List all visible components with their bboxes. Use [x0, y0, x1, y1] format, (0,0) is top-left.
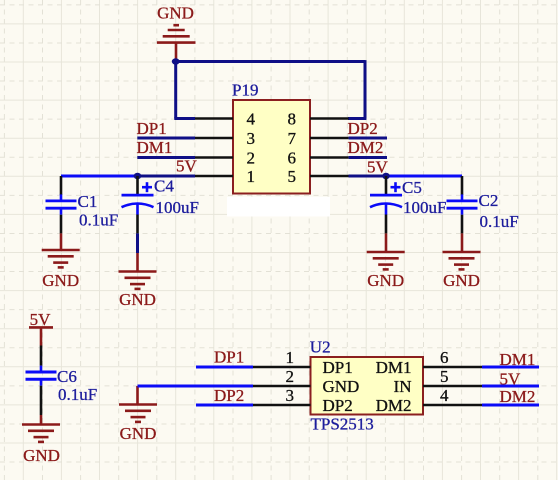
comment TPS2513 — [311, 415, 374, 434]
svg-text:GND: GND — [42, 271, 79, 290]
wire C4 to ground — [136, 233, 139, 253]
pin number 5 — [288, 167, 297, 186]
wire net DM1 (left of P19) — [137, 156, 195, 159]
value 0.1uF (C1) — [79, 211, 118, 230]
wire GND net: left vertical down to pin 4 — [174, 62, 177, 119]
ground under C4 — [119, 253, 157, 309]
pin number 4 — [440, 386, 449, 405]
svg-text:GND: GND — [367, 271, 404, 290]
net label 5V (right) — [367, 158, 389, 177]
net label DP2 (bottom) — [214, 386, 244, 405]
svg-text:3: 3 — [247, 129, 256, 148]
svg-text:GND: GND — [120, 424, 157, 443]
svg-text:1: 1 — [286, 348, 295, 367]
pin 5 of U2 (right stub) — [423, 385, 482, 388]
ground under C1 — [42, 233, 80, 289]
svg-text:6: 6 — [288, 148, 297, 167]
junction at C5 — [382, 173, 390, 179]
pin name DM2 — [376, 396, 412, 415]
designator C4 — [154, 177, 174, 196]
pin number 7 — [288, 129, 297, 148]
wire net DP1 (left of P19) — [137, 137, 195, 140]
ground under C6 — [22, 415, 60, 465]
power port GND (top, inverted) — [157, 4, 196, 62]
pin number 3 — [286, 386, 295, 405]
svg-text:TPS2513: TPS2513 — [311, 415, 374, 434]
svg-text:IN: IN — [394, 377, 412, 396]
pin 2 of U2 (left stub) — [253, 385, 311, 388]
svg-text:GND: GND — [119, 290, 156, 309]
designator C1 — [78, 192, 98, 211]
net label 5V (bottom right) — [500, 369, 522, 388]
svg-text:DP2: DP2 — [323, 396, 353, 415]
value 0.1uF (C2) — [480, 212, 519, 231]
svg-text:DM1: DM1 — [376, 358, 412, 377]
pin 3 of U2 (left stub) — [253, 404, 311, 407]
pin 6 of U2 (right stub) — [423, 366, 482, 369]
svg-text:U2: U2 — [310, 338, 331, 357]
pin 4 of P19 (left stub) — [195, 117, 233, 120]
wire net 5V to pin 5 — [349, 175, 387, 178]
svg-text:P19: P19 — [232, 80, 258, 99]
pin number 1 — [247, 167, 256, 186]
ground under C2 — [443, 233, 481, 289]
wire net DP2 (right of P19) — [349, 137, 387, 140]
junction (GND net) — [172, 58, 180, 64]
pin 1 of U2 (left stub) — [253, 366, 311, 369]
pin name DP1 — [323, 358, 353, 377]
net label DM2 — [348, 138, 384, 157]
wire GND net: junction to right corner — [176, 60, 365, 63]
svg-text:3: 3 — [286, 386, 295, 405]
pin number 1 — [286, 348, 295, 367]
capacitor C6 — [26, 346, 57, 416]
svg-text:DP2: DP2 — [214, 386, 244, 405]
svg-text:DP1: DP1 — [214, 347, 244, 366]
svg-text:7: 7 — [288, 129, 297, 148]
net label 5V (left) — [176, 157, 198, 176]
svg-text:DP1: DP1 — [323, 358, 353, 377]
pin number 4 — [247, 109, 256, 128]
capacitor C1 — [46, 176, 77, 233]
svg-text:GND: GND — [157, 4, 194, 23]
pin 3 of P19 (left stub) — [195, 137, 233, 140]
capacitor C4 (polarized) — [122, 176, 154, 233]
pin number 5 — [440, 367, 449, 386]
designator C2 — [479, 191, 499, 210]
pin name DM1 — [376, 358, 412, 377]
svg-text:100uF: 100uF — [156, 198, 199, 217]
svg-text:100uF: 100uF — [403, 198, 446, 217]
ground (middle, to U2 pin 2) — [119, 386, 157, 443]
wire net DP1 to U2 pin 1 — [196, 366, 253, 369]
svg-text:DP2: DP2 — [348, 119, 378, 138]
svg-text:4: 4 — [440, 386, 449, 405]
svg-text:5V: 5V — [500, 369, 522, 388]
pin 8 of P19 (right stub) — [310, 117, 349, 120]
designator C6 — [57, 367, 77, 386]
ground under C5 — [367, 233, 405, 289]
svg-text:C5: C5 — [402, 178, 422, 197]
net label DP1 (bottom) — [214, 347, 244, 366]
svg-text:C1: C1 — [78, 192, 98, 211]
net label DP2 — [348, 119, 378, 138]
connector P19 box — [233, 100, 310, 194]
svg-text:5: 5 — [440, 367, 449, 386]
svg-text:2: 2 — [247, 148, 256, 167]
svg-text:0.1uF: 0.1uF — [58, 385, 97, 404]
svg-text:DM2: DM2 — [348, 138, 384, 157]
svg-text:C2: C2 — [479, 191, 499, 210]
net label DM1 (bottom right) — [500, 350, 536, 369]
wire 5V rail junction to C2 — [386, 175, 462, 178]
svg-text:GND: GND — [23, 446, 60, 465]
svg-text:1: 1 — [247, 167, 256, 186]
svg-text:0.1uF: 0.1uF — [480, 212, 519, 231]
capacitor C5 (polarized) — [370, 176, 402, 233]
designator C5 — [402, 178, 422, 197]
svg-text:GND: GND — [443, 271, 480, 290]
svg-text:DP1: DP1 — [137, 119, 167, 138]
svg-text:C4: C4 — [154, 177, 174, 196]
svg-text:DM2: DM2 — [376, 396, 412, 415]
pin number 6 — [288, 148, 297, 167]
wire to pin 4 — [174, 117, 195, 120]
pin number 2 — [247, 148, 256, 167]
wire net DM2 from U2 pin 4 — [482, 404, 539, 407]
pin name DP2 — [323, 396, 353, 415]
wire net 5V to pin 1 — [138, 175, 196, 178]
wire 5V rail C1 to junction — [61, 175, 138, 178]
designator P19 — [232, 80, 258, 99]
wire GND to U2 pin 2 — [138, 385, 254, 388]
svg-text:6: 6 — [440, 348, 449, 367]
wire to pin 8 — [348, 117, 366, 120]
wire net DM1 from U2 pin 6 — [482, 366, 539, 369]
white overlay rectangle below P19 — [227, 197, 330, 217]
pin 4 of U2 (right stub) — [423, 404, 482, 407]
value 100uF (C4) — [156, 198, 199, 217]
pin 7 of P19 (right stub) — [310, 137, 349, 140]
svg-text:GND: GND — [323, 377, 360, 396]
pin number 3 — [247, 129, 256, 148]
junction at C4 — [134, 173, 142, 179]
wire net DM2 (right of P19) — [349, 156, 387, 159]
svg-text:5: 5 — [288, 167, 297, 186]
pin name GND — [323, 377, 360, 396]
svg-text:8: 8 — [288, 109, 297, 128]
designator U2 — [310, 338, 331, 357]
value 100uF (C5) — [403, 198, 446, 217]
net label DM1 — [137, 138, 173, 157]
svg-text:4: 4 — [247, 109, 256, 128]
value 0.1uF (C6) — [58, 385, 97, 404]
pin 5 of P19 (right stub) — [310, 175, 349, 178]
pin number 6 — [440, 348, 449, 367]
pin 1 of P19 (left stub) — [195, 175, 233, 178]
IC U2 box — [311, 357, 424, 415]
wire net DP2 to U2 pin 3 — [196, 404, 253, 407]
wire net 5V from U2 pin 5 — [482, 385, 539, 388]
capacitor C2 — [447, 176, 478, 233]
svg-text:2: 2 — [286, 367, 295, 386]
svg-text:0.1uF: 0.1uF — [79, 211, 118, 230]
svg-text:DM1: DM1 — [137, 138, 173, 157]
svg-text:5V: 5V — [176, 157, 198, 176]
svg-text:DM1: DM1 — [500, 350, 536, 369]
svg-text:C6: C6 — [57, 367, 77, 386]
svg-text:DM2: DM2 — [500, 387, 536, 406]
power port 5V (above C6) — [29, 310, 53, 345]
wire GND net: right vertical down to pin 8 — [364, 60, 367, 118]
pin 6 of P19 (right stub) — [310, 156, 349, 159]
net label DM2 (bottom right) — [500, 387, 536, 406]
pin number 8 — [288, 109, 297, 128]
pin 2 of P19 (left stub) — [195, 156, 233, 159]
pin number 2 — [286, 367, 295, 386]
pin name IN — [394, 377, 412, 396]
net label DP1 — [137, 119, 167, 138]
